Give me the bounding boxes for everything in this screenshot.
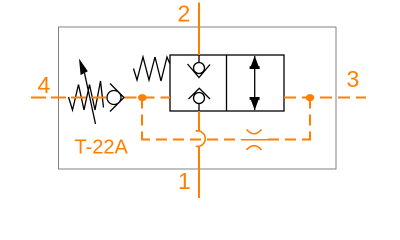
wire: port 3 dashed line (284, 97, 366, 99)
wire: port 1 line lower segment (198, 146, 200, 198)
wire: port 1 line upper segment (valve bottom to crossing) (198, 111, 200, 132)
svg-text:3: 3 (347, 66, 360, 92)
valve V1 envelope (two-position body) (170, 55, 284, 111)
svg-text:4: 4 (38, 72, 51, 98)
enclosure (gray assembly boundary) (59, 27, 337, 169)
wire: dashed line check valve to valve body (125, 97, 171, 99)
wire: solid segment through orifice (241, 139, 268, 141)
flow arrow (free-flow position, double headed) (250, 56, 260, 111)
wire: dashed pilot drop at node A (141, 98, 143, 141)
spring S1 (adjustable relief spring) (69, 81, 104, 110)
wire: bottom pilot dashed line (node A drop to orifice) (142, 139, 241, 141)
svg-text:T-22A: T-22A (75, 137, 129, 159)
poppet P2 (bottom, open position) (189, 88, 211, 111)
port 2 pilot line (wire to valve top) (198, 3, 200, 56)
node B (junction dot) (306, 94, 315, 101)
port 4 label (38, 72, 51, 98)
port 1 label (178, 168, 191, 194)
orifice (fixed restriction) (247, 130, 262, 150)
svg-text:1: 1 (178, 168, 191, 194)
svg-text:2: 2 (178, 1, 191, 27)
label T-22A (75, 137, 129, 159)
wire: bottom pilot dashed line (orifice to node B drop) (268, 139, 310, 141)
port 2 label (178, 1, 191, 27)
spring S2 (valve spring) (134, 57, 171, 81)
crossing hop (port 1 line loops over pilot line) (196, 131, 206, 147)
node A (junction dot) (138, 94, 147, 101)
adjustment arrow through spring S1 (79, 59, 96, 125)
wire: port 4 dashed line (31, 97, 107, 99)
wire: dashed pilot drop at node B (309, 98, 311, 141)
poppet P1 (top, seated position) (188, 55, 211, 78)
check valve CV1 (ball and seat) (107, 84, 124, 112)
port 3 label (347, 66, 360, 92)
